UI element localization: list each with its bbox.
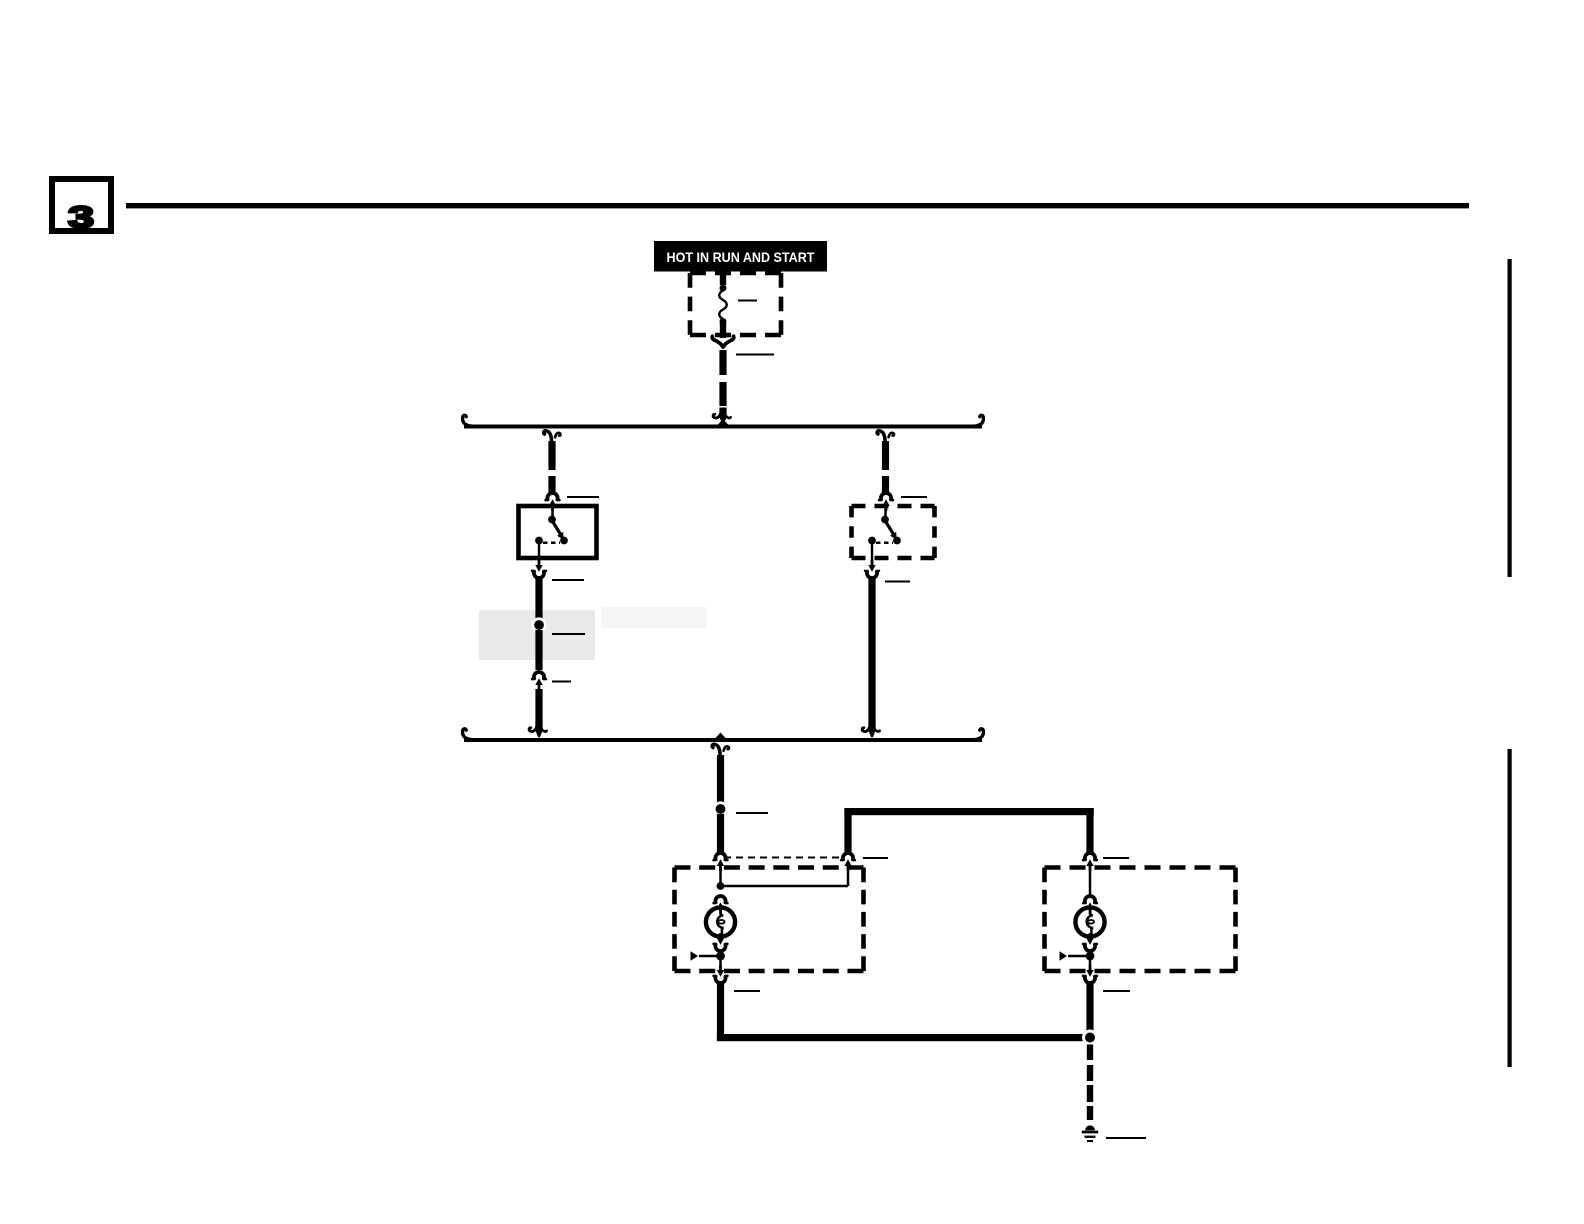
svg-text:3: 3	[68, 200, 94, 235]
svg-text:HOT IN RUN AND START: HOT IN RUN AND START	[667, 249, 815, 265]
